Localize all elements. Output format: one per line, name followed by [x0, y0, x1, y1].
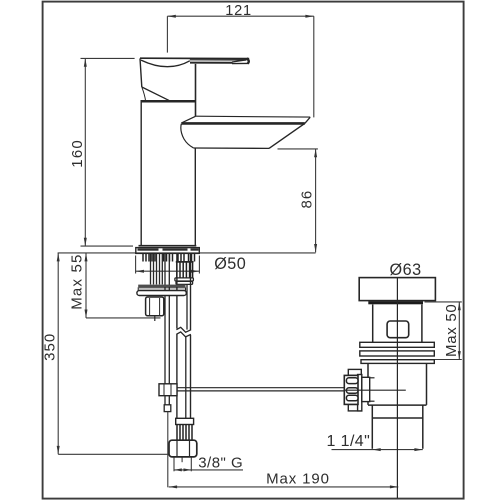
svg-text:350: 350: [42, 333, 59, 361]
svg-text:121: 121: [225, 3, 252, 19]
svg-text:Max 190: Max 190: [266, 470, 330, 487]
svg-text:Ø63: Ø63: [390, 261, 422, 279]
svg-text:Ø50: Ø50: [214, 255, 246, 273]
svg-text:86: 86: [299, 190, 316, 209]
svg-text:1 1/4": 1 1/4": [327, 433, 371, 450]
svg-text:160: 160: [69, 139, 86, 168]
svg-text:Max 55: Max 55: [68, 253, 85, 309]
svg-text:Max 50: Max 50: [443, 304, 460, 357]
svg-text:3/8" G: 3/8" G: [198, 455, 243, 472]
